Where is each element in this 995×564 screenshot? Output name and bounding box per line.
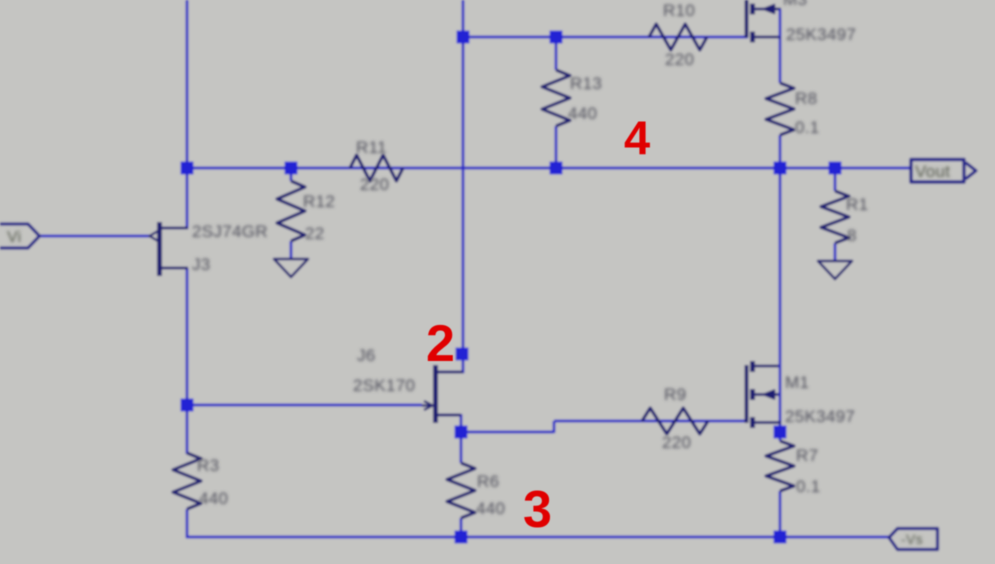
M3 drain-source vertical xyxy=(779,9,782,37)
wire: R12 bottom stub xyxy=(290,241,293,259)
wire: jog vertical xyxy=(553,421,556,433)
port Vout chevron xyxy=(966,163,977,180)
svg-text:2SJ74GR: 2SJ74GR xyxy=(192,222,268,241)
M1 drain lead xyxy=(753,365,781,368)
resistor R8 xyxy=(766,83,794,135)
svg-text:R13: R13 xyxy=(570,74,602,93)
junction J6 source xyxy=(455,426,468,439)
svg-text:R1: R1 xyxy=(846,195,868,214)
transistor M1 gate bar xyxy=(745,365,749,423)
J6 gate arrow (points right) xyxy=(424,401,433,410)
wire: R1 bottom stub xyxy=(834,243,837,261)
M3 channel bar bottom xyxy=(750,32,755,43)
J3 source stub xyxy=(159,267,188,270)
M1 bulk lead xyxy=(753,393,781,396)
svg-text:R11: R11 xyxy=(356,138,387,157)
junction R12/output rail xyxy=(285,162,298,175)
resistor R9 xyxy=(642,408,708,434)
wire: R13 top stub xyxy=(555,37,558,70)
junction mid vertical / gate net xyxy=(457,31,470,44)
wire: M1 source to R7 xyxy=(779,420,782,441)
node 2 marker dot xyxy=(456,348,469,361)
wire: bottom -Vs rail xyxy=(186,536,889,539)
svg-text:220: 220 xyxy=(665,50,694,69)
svg-text:R3: R3 xyxy=(197,456,219,475)
svg-text:R8: R8 xyxy=(795,89,817,108)
svg-text:Vout: Vout xyxy=(915,162,950,181)
J6 gate lead xyxy=(422,404,430,406)
svg-text:R10: R10 xyxy=(663,1,695,20)
svg-text:Vi: Vi xyxy=(7,229,22,246)
junction R7/bottom rail xyxy=(774,531,787,544)
junction R8/M1/output rail xyxy=(774,162,787,175)
resistor R6 xyxy=(447,463,475,518)
wire: R12 top stub xyxy=(290,168,293,181)
resistor R1 xyxy=(821,191,849,243)
M1 drain-source vertical xyxy=(779,362,782,421)
M1 channel bar top xyxy=(750,361,755,372)
svg-text:440: 440 xyxy=(199,489,228,508)
wire: R1 top stub xyxy=(834,168,837,191)
wire: M3 source down to R8 xyxy=(779,9,782,83)
svg-text:0.1: 0.1 xyxy=(795,118,820,137)
port Vi flag xyxy=(0,224,40,248)
M1 bulk arrow xyxy=(763,390,775,399)
svg-text:22: 22 xyxy=(305,224,325,243)
resistor R3 xyxy=(173,453,201,509)
wire: mid vertical down to J6 drain xyxy=(462,0,465,373)
resistor R7 xyxy=(766,441,794,491)
M1 channel bar bottom xyxy=(750,417,755,428)
transistor J3 channel bar xyxy=(157,222,162,276)
ground (below R1) xyxy=(818,261,852,279)
junction R13 top xyxy=(550,31,563,44)
M3 channel bar mid xyxy=(750,4,755,15)
svg-text:-Vs: -Vs xyxy=(901,531,923,547)
transistor M3 gate bar (clipped) xyxy=(745,0,749,38)
resistor R13 xyxy=(542,70,570,126)
wire: J6 source stub xyxy=(437,414,461,417)
svg-text:J3: J3 xyxy=(192,255,211,274)
svg-text:R6: R6 xyxy=(477,472,499,491)
wire: M1 drain from output rail xyxy=(779,168,782,362)
svg-text:R12: R12 xyxy=(303,192,335,211)
svg-text:440: 440 xyxy=(476,499,505,518)
svg-text:440: 440 xyxy=(568,104,597,123)
svg-text:M3: M3 xyxy=(783,0,807,9)
wire: left vertical from top to J3 drain xyxy=(186,0,189,229)
svg-text:4: 4 xyxy=(624,111,650,164)
port -Vs flag xyxy=(889,529,938,550)
junction at left of output rail xyxy=(181,162,194,175)
wire: jog to M1 gate through R9 xyxy=(554,420,745,423)
J3 drain stub xyxy=(159,227,188,230)
svg-text:2: 2 xyxy=(426,315,455,373)
wire: J6 source to jog xyxy=(461,431,554,434)
svg-text:2SK170: 2SK170 xyxy=(353,376,415,395)
junction R1/output rail xyxy=(829,162,842,175)
junction R13/output rail xyxy=(550,162,563,175)
svg-text:25K3497: 25K3497 xyxy=(785,407,855,426)
svg-text:3: 3 xyxy=(523,481,552,539)
wire: J3 source down to R3 xyxy=(186,268,189,454)
M1 channel bar mid xyxy=(750,389,755,400)
wire: output rail (node 4) xyxy=(187,167,912,170)
J6 source stub xyxy=(435,414,461,417)
wire: J6 gate wire xyxy=(187,404,422,407)
resistor R11 xyxy=(350,155,403,181)
M3 source lead xyxy=(753,36,781,39)
svg-text:J6: J6 xyxy=(357,346,376,365)
J3 gate arrow (points left) xyxy=(150,231,159,241)
M3 bulk arrow xyxy=(763,5,775,14)
port Vout box xyxy=(911,160,964,183)
ground (below R12) xyxy=(274,259,308,277)
svg-text:R7: R7 xyxy=(796,446,818,465)
transistor J6 channel bar xyxy=(433,365,438,423)
svg-text:0.1: 0.1 xyxy=(796,477,821,496)
wire: R6 top stub xyxy=(460,432,463,463)
svg-text:25K3497: 25K3497 xyxy=(786,25,856,44)
wire: R13 bottom stub xyxy=(555,126,558,168)
M1 source lead xyxy=(753,421,781,424)
resistor R12 xyxy=(277,181,305,241)
wire: R7 bottom stub xyxy=(779,491,782,538)
resistor R10 xyxy=(649,24,707,50)
svg-text:220: 220 xyxy=(360,175,389,194)
wire: node above R13 to M3 gate xyxy=(463,36,748,39)
svg-text:220: 220 xyxy=(662,433,691,452)
wire: R6 bottom stub xyxy=(460,518,463,538)
wire: R8 bottom stub xyxy=(779,135,782,168)
wire: J6 source down to node xyxy=(460,414,463,433)
svg-text:8: 8 xyxy=(847,226,857,245)
svg-text:M1: M1 xyxy=(785,373,809,392)
junction M1 source/R7 xyxy=(774,426,787,439)
svg-text:R9: R9 xyxy=(664,385,686,404)
junction R6/bottom rail xyxy=(455,531,468,544)
wire: J6 drain stub xyxy=(437,371,464,374)
M3 bulk lead xyxy=(753,8,781,11)
wire: R3 bottom stub xyxy=(186,509,189,538)
junction J6 gate / R3 xyxy=(181,399,194,412)
J6 drain stub xyxy=(435,371,463,374)
wire: Vi to J3 gate xyxy=(39,235,152,238)
